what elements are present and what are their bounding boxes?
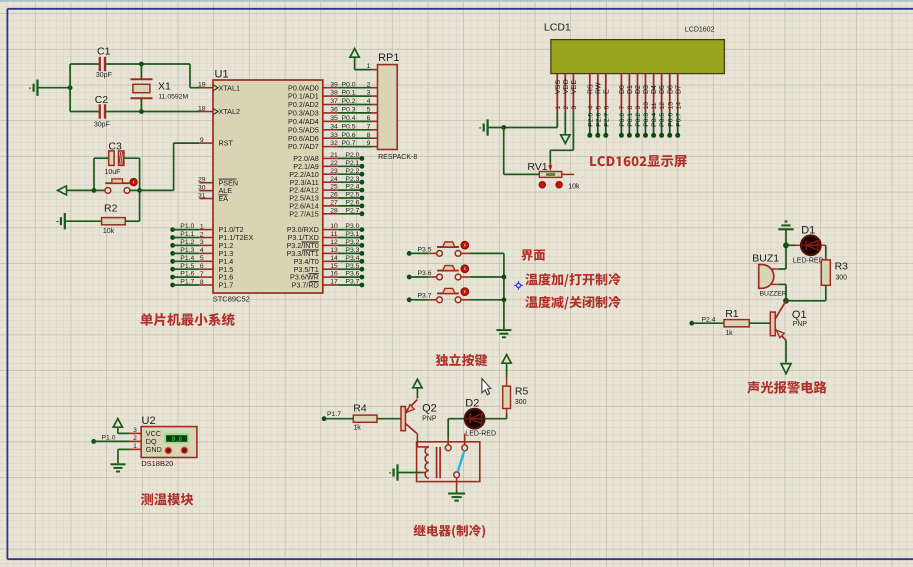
svg-text:PNP: PNP (422, 416, 437, 423)
svg-text:1k: 1k (353, 424, 361, 431)
svg-text:D7: D7 (675, 85, 682, 94)
svg-text:PNP: PNP (793, 321, 808, 328)
svg-text:P3.1: P3.1 (345, 231, 359, 238)
svg-text:30pF: 30pF (96, 72, 112, 79)
svg-text:30: 30 (198, 184, 206, 191)
svg-text:1: 1 (200, 223, 204, 230)
svg-text:3: 3 (133, 427, 137, 434)
svg-text:LCD1: LCD1 (544, 21, 571, 33)
svg-text:22: 22 (330, 160, 338, 167)
svg-text:BUZZER: BUZZER (760, 291, 787, 298)
svg-text:32: 32 (330, 140, 338, 147)
svg-text:R4: R4 (353, 403, 367, 415)
svg-text:4: 4 (200, 247, 204, 254)
svg-text:7: 7 (619, 106, 626, 110)
svg-text:P3.6: P3.6 (418, 270, 432, 277)
svg-text:D2: D2 (465, 397, 479, 409)
svg-text:LED-RED: LED-RED (465, 430, 496, 437)
svg-text:3: 3 (367, 90, 371, 97)
svg-text:9: 9 (200, 137, 204, 144)
svg-text:P0.7/AD7: P0.7/AD7 (288, 142, 319, 151)
svg-text:5: 5 (367, 107, 371, 114)
svg-text:12: 12 (659, 102, 666, 110)
svg-text:RST: RST (219, 139, 234, 148)
svg-text:7: 7 (367, 123, 371, 130)
svg-text:37: 37 (330, 98, 338, 105)
svg-text:GND: GND (146, 445, 162, 454)
svg-text:6: 6 (603, 106, 610, 110)
svg-text:2: 2 (133, 435, 137, 442)
svg-text:P1.6: P1.6 (180, 271, 194, 278)
svg-text:Q1: Q1 (792, 309, 807, 321)
svg-text:P0.0: P0.0 (342, 81, 356, 88)
svg-text:11: 11 (330, 231, 337, 238)
svg-text:P0.3: P0.3 (643, 113, 650, 127)
svg-text:10uF: 10uF (105, 169, 121, 176)
svg-text:P0.1: P0.1 (627, 113, 634, 127)
svg-text:2: 2 (200, 231, 204, 238)
svg-text:E: E (603, 89, 610, 94)
svg-text:C2: C2 (95, 94, 109, 106)
svg-text:VSS: VSS (555, 80, 562, 94)
svg-text:VEE: VEE (571, 80, 578, 94)
svg-text:P2.4: P2.4 (345, 184, 359, 191)
svg-text:7: 7 (200, 271, 204, 278)
svg-text:P0.6: P0.6 (667, 113, 674, 127)
svg-text:R2: R2 (104, 202, 118, 214)
svg-text:P2.4: P2.4 (702, 316, 716, 323)
svg-text:X1: X1 (158, 81, 171, 93)
svg-text:6: 6 (367, 115, 371, 122)
svg-text:STC89C52: STC89C52 (213, 295, 250, 304)
svg-text:10: 10 (330, 223, 338, 230)
svg-text:29: 29 (198, 177, 206, 184)
svg-text:36: 36 (330, 107, 338, 114)
svg-text:33: 33 (330, 132, 338, 139)
svg-text:P3.6: P3.6 (345, 271, 359, 278)
svg-text:35: 35 (330, 115, 338, 122)
svg-text:15: 15 (330, 263, 338, 270)
svg-text:P2.5: P2.5 (587, 113, 594, 127)
svg-text:5: 5 (595, 106, 602, 110)
svg-text:P0.4: P0.4 (651, 113, 658, 127)
svg-text:P0.2: P0.2 (635, 113, 642, 127)
svg-text:D1: D1 (801, 225, 815, 237)
svg-text:BUZ1: BUZ1 (752, 253, 779, 265)
svg-text:D0: D0 (619, 85, 626, 94)
svg-text:P3.4: P3.4 (345, 255, 359, 262)
svg-text:8: 8 (200, 279, 204, 286)
svg-text:D3: D3 (643, 85, 650, 94)
svg-text:P2.7: P2.7 (345, 207, 359, 214)
svg-text:P0.5: P0.5 (659, 113, 666, 127)
svg-text:RW: RW (595, 82, 602, 94)
svg-text:4: 4 (587, 106, 594, 110)
svg-text:R1: R1 (725, 308, 739, 320)
svg-text:P0.7: P0.7 (342, 140, 356, 147)
svg-text:P0.4: P0.4 (342, 115, 356, 122)
svg-text:D1: D1 (627, 85, 634, 94)
svg-text:P3.2: P3.2 (345, 239, 359, 246)
svg-text:25: 25 (330, 184, 338, 191)
svg-text:38: 38 (330, 90, 338, 97)
svg-text:1k: 1k (725, 330, 733, 337)
svg-text:2: 2 (367, 81, 371, 88)
svg-text:P1.4: P1.4 (180, 255, 194, 262)
svg-text:21: 21 (330, 152, 338, 159)
svg-text:14: 14 (330, 255, 338, 262)
svg-text:RP1: RP1 (378, 52, 399, 64)
svg-text:2: 2 (563, 106, 570, 110)
svg-text:14: 14 (675, 102, 682, 110)
svg-text:13: 13 (667, 102, 674, 110)
svg-text:D2: D2 (635, 85, 642, 94)
svg-text:11: 11 (651, 102, 658, 109)
svg-text:P1.1: P1.1 (180, 231, 194, 238)
svg-text:6: 6 (200, 263, 204, 270)
svg-text:P0.2: P0.2 (342, 98, 356, 105)
svg-text:10k: 10k (568, 183, 580, 190)
svg-text:XTAL1: XTAL1 (219, 83, 240, 92)
svg-text:P2.6: P2.6 (595, 113, 602, 127)
svg-text:R3: R3 (835, 261, 849, 273)
svg-text:9: 9 (635, 106, 642, 110)
svg-text:P3.5: P3.5 (418, 246, 432, 253)
svg-text:8: 8 (367, 132, 371, 139)
svg-text:P2.0: P2.0 (345, 152, 359, 159)
svg-text:1: 1 (133, 443, 137, 450)
svg-text:P1.7: P1.7 (180, 279, 194, 286)
svg-text:LED-RED: LED-RED (793, 258, 824, 265)
svg-text:P0.7: P0.7 (675, 113, 682, 127)
svg-text:8: 8 (627, 106, 634, 110)
svg-text:DS18B20: DS18B20 (141, 459, 173, 468)
svg-text:P2.7/A15: P2.7/A15 (289, 209, 319, 218)
svg-text:EA: EA (219, 194, 229, 203)
svg-text:P1.0: P1.0 (180, 223, 194, 230)
svg-text:16: 16 (330, 271, 338, 278)
svg-text:P0.6: P0.6 (342, 132, 356, 139)
svg-text:P3.3: P3.3 (345, 247, 359, 254)
svg-text:5: 5 (200, 255, 204, 262)
svg-text:31: 31 (198, 192, 206, 199)
svg-text:D4: D4 (651, 85, 658, 94)
svg-text:12: 12 (330, 239, 338, 246)
svg-text:P2.3: P2.3 (345, 176, 359, 183)
svg-text:D5: D5 (659, 85, 666, 94)
svg-text:LCD1602: LCD1602 (685, 27, 715, 34)
svg-text:RS: RS (587, 84, 594, 94)
svg-text:P3.0: P3.0 (345, 223, 359, 230)
svg-text:P1.7: P1.7 (219, 281, 234, 290)
svg-text:39: 39 (330, 81, 338, 88)
svg-text:P1.7: P1.7 (327, 411, 341, 418)
svg-text:9: 9 (367, 140, 371, 147)
svg-text:P1.3: P1.3 (180, 247, 194, 254)
svg-text:VDD: VDD (563, 79, 570, 94)
svg-text:34: 34 (330, 123, 338, 130)
svg-text:C1: C1 (97, 46, 111, 58)
svg-text:3: 3 (200, 239, 204, 246)
svg-text:P1.5: P1.5 (180, 263, 194, 270)
svg-text:13: 13 (330, 247, 338, 254)
svg-text:23: 23 (330, 168, 338, 175)
svg-text:RESPACK-8: RESPACK-8 (378, 154, 417, 161)
svg-text:1: 1 (367, 63, 371, 70)
svg-text:P3.7: P3.7 (418, 293, 432, 300)
svg-text:300: 300 (835, 275, 847, 282)
svg-text:P0.3: P0.3 (342, 107, 356, 114)
svg-text:R5: R5 (515, 386, 529, 398)
svg-text:P3.5: P3.5 (345, 263, 359, 270)
svg-text:P2.2: P2.2 (345, 168, 359, 175)
svg-text:D6: D6 (667, 85, 674, 94)
svg-text:P2.1: P2.1 (345, 160, 359, 167)
svg-text:P2.7: P2.7 (603, 113, 610, 127)
svg-text:P2.5: P2.5 (345, 192, 359, 199)
svg-text:30pF: 30pF (94, 122, 110, 129)
svg-text:C3: C3 (108, 141, 122, 153)
svg-text:24: 24 (330, 176, 338, 183)
svg-text:P0.0: P0.0 (619, 113, 626, 127)
svg-text:Q2: Q2 (422, 403, 437, 415)
svg-text:P1.2: P1.2 (180, 239, 194, 246)
svg-text:11.0592M: 11.0592M (158, 93, 188, 100)
svg-text:P1.0: P1.0 (102, 434, 116, 441)
svg-text:27: 27 (330, 200, 338, 207)
svg-text:26: 26 (330, 192, 338, 199)
svg-text:U1: U1 (215, 69, 229, 81)
svg-text:P0.5: P0.5 (342, 123, 356, 130)
svg-text:U2: U2 (142, 415, 156, 427)
svg-text:17: 17 (330, 279, 338, 286)
svg-text:4: 4 (367, 98, 371, 105)
svg-text:300: 300 (515, 399, 527, 406)
svg-text:P2.6: P2.6 (345, 200, 359, 207)
svg-text:10k: 10k (103, 228, 115, 235)
svg-text:XTAL2: XTAL2 (219, 107, 240, 116)
svg-text:1: 1 (555, 106, 562, 110)
svg-text:10: 10 (643, 102, 650, 110)
svg-text:3: 3 (571, 106, 578, 110)
svg-text:P3.7: P3.7 (345, 279, 359, 286)
svg-text:P0.1: P0.1 (342, 90, 356, 97)
svg-text:RV1: RV1 (527, 161, 547, 173)
svg-text:28: 28 (330, 207, 338, 214)
